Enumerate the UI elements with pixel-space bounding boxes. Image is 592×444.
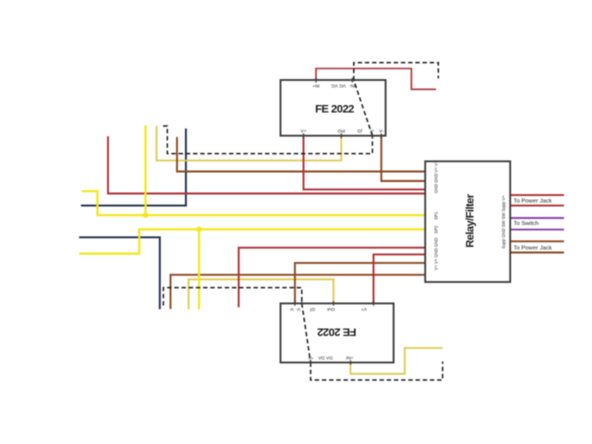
svg-text:FE 2022: FE 2022 — [315, 104, 354, 116]
svg-text:VG VG: VG VG — [318, 356, 333, 361]
svg-text:Out: Out — [338, 129, 346, 134]
svg-text:V+ V+ GND GND: V+ V+ GND GND — [433, 238, 438, 271]
svg-text:In-: In- — [308, 356, 314, 361]
svg-text:V-: V- — [379, 129, 384, 134]
svg-text:IN-: IN- — [349, 84, 356, 89]
svg-text:Relay/Filter: Relay/Filter — [464, 193, 476, 248]
svg-text:V-: V- — [289, 307, 294, 312]
svg-text:To Power Jack: To Power Jack — [514, 198, 552, 204]
svg-text:FE 2022: FE 2022 — [317, 326, 356, 338]
svg-text:VG VG: VG VG — [331, 84, 346, 89]
svg-text:V-: V- — [370, 129, 375, 134]
svg-text:V+: V+ — [301, 129, 307, 134]
svg-text:IN+: IN+ — [312, 84, 320, 89]
svg-text:V-: V- — [296, 307, 301, 312]
svg-text:Gf: Gf — [310, 307, 316, 312]
svg-text:V+: V+ — [361, 307, 367, 312]
svg-text:IN+: IN+ — [346, 356, 354, 361]
svg-text:To Power Jack: To Power Jack — [514, 245, 552, 251]
svg-text:Supp GND SW SW Supp V+: Supp GND SW SW Supp V+ — [501, 195, 506, 249]
svg-text:Gf: Gf — [357, 129, 363, 134]
svg-text:SP1: SP1 — [433, 211, 438, 220]
svg-text:GND GND V+ V+: GND GND V+ V+ — [433, 160, 438, 193]
svg-text:To Switch: To Switch — [514, 221, 539, 227]
svg-text:Out: Out — [327, 307, 335, 312]
svg-text:SP2: SP2 — [433, 225, 438, 234]
